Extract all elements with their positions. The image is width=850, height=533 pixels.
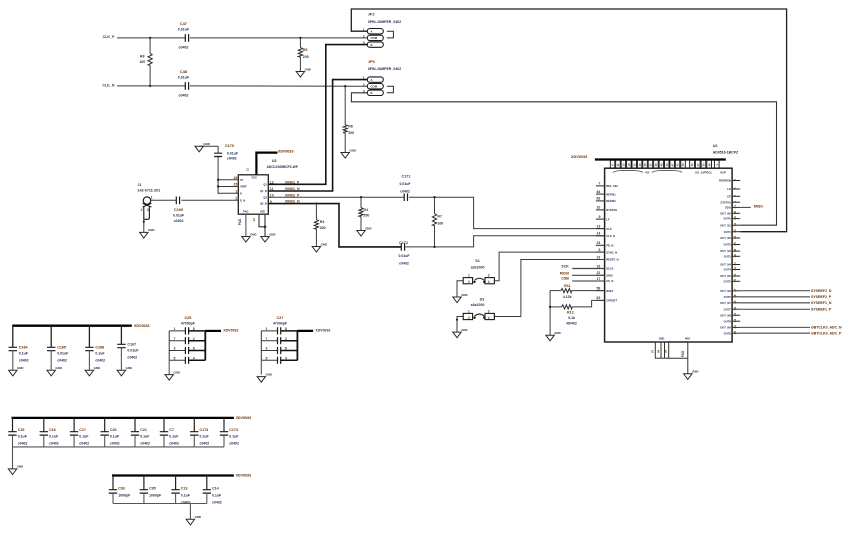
wire OUT_N6 SYSREF2_N <box>740 289 832 293</box>
ground (U3 PAD) <box>238 214 257 242</box>
svg-text:LF: LF <box>606 217 610 221</box>
svg-text:14: 14 <box>596 232 600 236</box>
connector JP5 3PIN-JUMPER_0402 <box>363 60 401 96</box>
svg-text:7: 7 <box>266 337 268 341</box>
svg-text:S3: S3 <box>480 298 485 302</box>
svg-text:5: 5 <box>733 195 737 197</box>
svg-text:R6: R6 <box>348 125 353 129</box>
svg-text:GND: GND <box>266 372 272 376</box>
resistor R3 <box>314 204 325 247</box>
capacitor C16 <box>40 418 59 447</box>
svg-text:16: 16 <box>596 264 600 268</box>
svg-text:D: D <box>240 191 242 195</box>
svg-text:AD9516-1BCPZ: AD9516-1BCPZ <box>713 150 739 154</box>
ground (C165) <box>47 366 62 376</box>
svg-text:27: 27 <box>696 163 700 166</box>
svg-text:OUT_N4: OUT_N4 <box>720 263 731 267</box>
node CLK_N <box>102 83 115 87</box>
svg-text:MOSI: MOSI <box>560 272 569 276</box>
svg-text:35: 35 <box>733 242 737 246</box>
svg-text:Q1: Q1 <box>263 182 267 186</box>
svg-text:41: 41 <box>733 262 737 266</box>
ground (R6) <box>341 148 356 158</box>
svg-text:0.1uF: 0.1uF <box>49 435 59 439</box>
svg-text:SDO: SDO <box>725 206 731 210</box>
svg-text:47: 47 <box>670 163 674 166</box>
svg-text:VCC: VCC <box>251 175 257 179</box>
svg-text:C169: C169 <box>174 208 183 212</box>
ground (J1) <box>140 228 155 238</box>
svg-text:GND: GND <box>305 67 311 71</box>
svg-text:c0402: c0402 <box>179 45 189 49</box>
svg-text:C93: C93 <box>118 487 125 491</box>
svg-text:OUT2: OUT2 <box>724 243 732 247</box>
svg-text:JP2: JP2 <box>368 13 375 17</box>
svg-text:XDV0033: XDV0033 <box>315 329 330 333</box>
svg-text:U3: U3 <box>272 159 277 163</box>
svg-text:B: B <box>371 91 373 95</box>
svg-text:a3s1000: a3s1000 <box>471 266 485 270</box>
svg-text:OUT_N1: OUT_N1 <box>720 223 731 227</box>
svg-text:8: 8 <box>193 327 195 331</box>
svg-text:46: 46 <box>707 163 711 166</box>
svg-text:25: 25 <box>638 163 642 166</box>
wire CLK_N net <box>117 85 367 88</box>
svg-text:PD_N: PD_N <box>606 244 613 248</box>
svg-text:CLK: CLK <box>606 227 612 231</box>
ground (bank2) <box>8 465 23 475</box>
capacitor C13 <box>171 476 190 505</box>
svg-text:SYNC_N: SYNC_N <box>606 250 617 254</box>
svg-text:17: 17 <box>596 277 600 281</box>
svg-text:47000pF: 47000pF <box>181 322 196 326</box>
svg-text:0.1uF: 0.1uF <box>181 493 191 497</box>
svg-text:4: 4 <box>285 357 287 361</box>
svg-text:9: 9 <box>598 215 600 219</box>
svg-text:25: 25 <box>733 331 737 335</box>
svg-text:24: 24 <box>596 241 600 245</box>
svg-text:CS_N: CS_N <box>606 279 613 283</box>
svg-text:21: 21 <box>733 205 737 209</box>
svg-text:200: 200 <box>303 55 309 59</box>
svg-text:c0402: c0402 <box>110 441 120 445</box>
svg-text:VREF: VREF <box>240 185 247 189</box>
svg-text:C16: C16 <box>49 428 56 432</box>
wire CLK_P net <box>117 37 367 39</box>
svg-text:200: 200 <box>364 214 370 218</box>
svg-text:GND: GND <box>55 366 61 370</box>
svg-text:C166: C166 <box>95 346 104 350</box>
power XDV0033 (U2 VS rail) <box>571 155 726 159</box>
svg-text:c0402: c0402 <box>229 441 239 445</box>
resistor R11 <box>550 284 605 299</box>
ground (C164) <box>9 366 24 376</box>
svg-text:21: 21 <box>632 163 636 166</box>
svg-text:C172: C172 <box>399 241 408 245</box>
resistor R12 <box>549 291 605 336</box>
capacitor C174 <box>220 418 239 447</box>
svg-text:OUT_N0: OUT_N0 <box>720 211 731 215</box>
node SCK <box>561 265 604 269</box>
svg-text:RESET_N: RESET_N <box>606 258 618 262</box>
ground (R4) <box>357 226 372 236</box>
capacitor C164 <box>9 326 29 371</box>
pin numbers U3 right <box>270 181 274 204</box>
svg-text:1: 1 <box>468 310 470 314</box>
svg-text:CPRSET: CPRSET <box>606 299 617 303</box>
ground (C27) <box>257 372 272 382</box>
capacitor C166 <box>85 326 105 371</box>
svg-text:2: 2 <box>285 337 287 341</box>
svg-text:VT: VT <box>240 178 244 182</box>
capacitor C93 <box>109 476 131 504</box>
svg-text:29: 29 <box>733 216 737 220</box>
svg-text:GND: GND <box>148 228 154 232</box>
svg-text:c0402: c0402 <box>200 441 210 445</box>
svg-text:16: 16 <box>233 176 237 180</box>
pin numbers U3 left <box>233 176 237 201</box>
svg-text:C174: C174 <box>229 428 238 432</box>
svg-text:C7: C7 <box>169 428 174 432</box>
capacitor C171 <box>399 175 411 202</box>
svg-text:34: 34 <box>733 235 737 239</box>
svg-text:U2: U2 <box>713 144 718 148</box>
resistor R6 <box>343 86 354 152</box>
svg-text:1: 1 <box>151 195 153 199</box>
svg-text:SCLK: SCLK <box>606 267 613 271</box>
svg-text:18: 18 <box>627 163 631 166</box>
svg-text:XIN02_P: XIN02_P <box>285 193 300 197</box>
resistor R8 <box>139 38 152 86</box>
svg-text:c0402: c0402 <box>95 359 105 363</box>
svg-text:R7: R7 <box>437 215 442 219</box>
svg-text:15: 15 <box>622 163 626 166</box>
svg-text:142-0711-201: 142-0711-201 <box>137 188 160 192</box>
svg-text:MISO: MISO <box>754 205 763 209</box>
svg-text:3: 3 <box>488 274 490 278</box>
svg-text:RSET: RSET <box>606 289 614 293</box>
svg-text:44: 44 <box>657 350 661 354</box>
svg-text:REFIN1: REFIN1 <box>606 192 616 196</box>
svg-text:4.12k: 4.12k <box>563 295 572 299</box>
svg-text:200: 200 <box>320 226 326 230</box>
svg-text:4: 4 <box>488 280 490 284</box>
pin group U2 bottom GND pins 37/44/59 <box>650 338 688 359</box>
node CSB <box>561 276 604 281</box>
ground (U2 PAD) <box>684 370 699 380</box>
svg-text:5: 5 <box>266 357 268 361</box>
svg-text:CSB: CSB <box>561 276 569 280</box>
svg-text:26: 26 <box>733 325 737 329</box>
capacitor C165 <box>47 326 69 371</box>
svg-text:2: 2 <box>193 337 195 341</box>
svg-text:PAD: PAD <box>685 338 690 341</box>
svg-text:38: 38 <box>733 249 737 253</box>
svg-text:C15: C15 <box>18 428 25 432</box>
svg-text:40: 40 <box>660 163 664 166</box>
svg-text:A: A <box>371 30 373 34</box>
svg-text:XIN01_P: XIN01_P <box>285 180 300 184</box>
power XDV0033 (U3 VCC) <box>246 150 294 175</box>
svg-text:45: 45 <box>733 279 737 283</box>
svg-text:OUT5: OUT5 <box>724 279 732 283</box>
svg-text:GND: GND <box>349 148 355 152</box>
svg-text:a3s1000: a3s1000 <box>471 303 485 307</box>
svg-text:43: 43 <box>665 163 669 166</box>
svg-text:23: 23 <box>733 319 737 323</box>
svg-text:OUT3: OUT3 <box>724 254 732 258</box>
svg-text:3: 3 <box>147 208 149 212</box>
svg-text:SYSREF1_P: SYSREF1_P <box>811 307 832 311</box>
ground (C167) <box>117 366 132 376</box>
svg-text:28: 28 <box>643 163 647 166</box>
svg-text:c0402: c0402 <box>127 356 137 360</box>
svg-text:XDV0033: XDV0033 <box>571 155 587 159</box>
svg-text:C170: C170 <box>225 144 234 148</box>
svg-text:C14: C14 <box>212 487 219 491</box>
svg-text:2: 2 <box>363 83 365 87</box>
connector JP2 3PIN-JUMPER_0402 <box>363 13 401 48</box>
svg-text:OUT7: OUT7 <box>724 307 732 311</box>
svg-text:OUT0: OUT0 <box>724 217 732 221</box>
svg-text:2: 2 <box>468 280 470 284</box>
svg-text:C167: C167 <box>127 343 136 347</box>
wire S1 to U2 SYNC_N <box>494 252 605 281</box>
svg-text:VEE: VEE <box>260 209 265 213</box>
svg-text:3: 3 <box>488 310 490 314</box>
svg-text:48: 48 <box>733 294 737 298</box>
ground (C170) <box>195 142 210 152</box>
svg-text:7: 7 <box>598 182 600 186</box>
svg-text:2: 2 <box>733 179 737 181</box>
power XDV0033 rail (bank3) <box>112 474 251 478</box>
power XDV0033 rail (bank2) <box>12 416 252 420</box>
svg-text:OUT_N6: OUT_N6 <box>720 289 731 293</box>
wire U3 VT/VREF/D tie <box>217 179 238 194</box>
svg-text:PAD: PAD <box>243 209 248 213</box>
svg-text:GND: GND <box>17 366 23 370</box>
svg-text:COM: COM <box>371 36 378 40</box>
svg-text:0.1uF: 0.1uF <box>79 435 89 439</box>
svg-text:0.1uF: 0.1uF <box>110 435 120 439</box>
svg-text:CLK_N: CLK_N <box>102 83 115 87</box>
svg-text:2: 2 <box>363 35 365 39</box>
svg-text:GND: GND <box>173 370 179 374</box>
svg-text:C171: C171 <box>401 175 410 179</box>
capacitor C17 <box>70 418 89 447</box>
switch S3 a3s1000 <box>463 298 494 320</box>
svg-text:OUT6: OUT6 <box>724 295 732 299</box>
pin group U2 left pins with numbers <box>596 182 619 303</box>
svg-text:45: 45 <box>733 300 737 304</box>
svg-text:GND: GND <box>269 232 275 236</box>
svg-text:33: 33 <box>733 229 737 233</box>
svg-text:ADCLK925BCPZ-WP: ADCLK925BCPZ-WP <box>267 165 299 169</box>
wire OUT9 GBTCLK0_ADC_P <box>740 331 842 335</box>
svg-text:C17: C17 <box>79 428 86 432</box>
svg-text:64: 64 <box>596 190 600 194</box>
svg-text:OUT_N2: OUT_N2 <box>720 236 731 240</box>
svg-text:OUT_N5: OUT_N5 <box>720 274 731 278</box>
svg-text:LD: LD <box>727 187 731 191</box>
svg-text:8: 8 <box>598 248 600 252</box>
capacitor C21 <box>131 418 150 447</box>
capacitor C173 <box>190 418 209 447</box>
svg-text:5.1k: 5.1k <box>568 316 575 320</box>
capacitor C170 <box>199 144 239 194</box>
svg-text:0.1uF: 0.1uF <box>19 352 29 356</box>
svg-text:1: 1 <box>235 189 237 193</box>
capacitor C7 <box>160 418 179 447</box>
svg-text:6: 6 <box>285 347 287 351</box>
capacitor C167 <box>117 326 139 371</box>
svg-text:GBTCLK0_ADC_N: GBTCLK0_ADC_N <box>811 326 842 330</box>
svg-text:C95: C95 <box>149 487 156 491</box>
capacitor C47 <box>178 22 190 50</box>
svg-text:XDV0033: XDV0033 <box>278 150 294 154</box>
svg-text:Q1_N: Q1_N <box>260 189 267 193</box>
svg-text:c0402: c0402 <box>19 359 29 363</box>
svg-text:7: 7 <box>173 337 175 341</box>
wire JP5 pin3 rail to U2 OUT_N1 <box>351 93 776 225</box>
svg-text:3: 3 <box>266 347 268 351</box>
svg-text:CP: CP <box>727 194 731 198</box>
svg-text:0.01uF: 0.01uF <box>227 151 239 155</box>
svg-text:GND: GND <box>365 226 371 230</box>
svg-text:R5: R5 <box>303 48 308 52</box>
svg-text:XDV0033: XDV0033 <box>223 329 238 333</box>
svg-text:C165: C165 <box>57 346 66 350</box>
svg-text:VCP: VCP <box>720 171 726 175</box>
ground (R3) <box>312 242 327 252</box>
wire XIN01_P net (U3 Q1 to JP2 B) <box>268 45 367 185</box>
svg-text:8: 8 <box>285 327 287 331</box>
svg-text:30: 30 <box>702 163 706 166</box>
capacitor C25 (array) <box>169 316 238 375</box>
svg-text:c0402: c0402 <box>79 441 89 445</box>
svg-text:13: 13 <box>596 224 600 228</box>
svg-text:STATUS: STATUS <box>720 200 731 204</box>
svg-text:GND: GND <box>250 232 256 236</box>
svg-text:VS_LVPECL: VS_LVPECL <box>695 171 712 175</box>
svg-text:R8: R8 <box>140 55 145 59</box>
svg-text:OUT_N9: OUT_N9 <box>720 326 731 330</box>
svg-text:C25: C25 <box>185 316 192 320</box>
svg-text:GND: GND <box>554 331 560 335</box>
svg-text:31: 31 <box>649 163 653 166</box>
svg-text:55: 55 <box>681 163 685 166</box>
svg-text:0.01uF: 0.01uF <box>127 349 139 353</box>
svg-text:XIN01_N: XIN01_N <box>285 187 300 191</box>
svg-text:GND: GND <box>659 338 665 341</box>
node MOSI <box>560 272 605 276</box>
svg-text:3: 3 <box>733 187 737 189</box>
svg-text:100: 100 <box>139 60 145 64</box>
svg-text:11: 11 <box>616 163 620 166</box>
svg-text:SDIO: SDIO <box>606 274 613 278</box>
svg-text:3PIN-JUMPER_0402: 3PIN-JUMPER_0402 <box>368 20 401 24</box>
resistor R5 <box>298 38 308 72</box>
wire OUT7 SYSREF1_P <box>740 307 832 311</box>
svg-text:0.1uF: 0.1uF <box>200 435 210 439</box>
svg-text:0.1uF: 0.1uF <box>140 435 150 439</box>
svg-text:R12: R12 <box>567 310 574 314</box>
svg-text:R11: R11 <box>564 284 570 288</box>
svg-text:15: 15 <box>233 183 237 187</box>
svg-text:1000pF: 1000pF <box>118 493 131 497</box>
svg-text:20: 20 <box>690 163 694 166</box>
svg-text:6: 6 <box>193 347 195 351</box>
op-amp U2 AD9516-1BCPZ <box>605 144 739 342</box>
svg-text:REFMON: REFMON <box>719 179 731 183</box>
capacitor C14 <box>203 476 222 505</box>
svg-text:c0402: c0402 <box>169 441 179 445</box>
svg-text:0.01uF: 0.01uF <box>399 182 411 186</box>
svg-text:GND: GND <box>203 142 209 146</box>
wire SDO to MISO <box>740 205 763 209</box>
switch S1 a3s1000 <box>463 259 494 284</box>
svg-text:0.1uF: 0.1uF <box>169 435 179 439</box>
svg-text:36: 36 <box>654 163 658 166</box>
svg-text:CLK_P: CLK_P <box>103 35 116 39</box>
svg-text:2: 2 <box>141 208 143 212</box>
svg-text:62: 62 <box>596 296 600 300</box>
svg-text:200: 200 <box>348 131 354 135</box>
svg-text:1: 1 <box>266 327 268 331</box>
ground (R11/R12) <box>546 331 561 341</box>
svg-text:BYPASS: BYPASS <box>606 208 617 212</box>
svg-text:1: 1 <box>733 200 737 202</box>
svg-text:XDV0033: XDV0033 <box>236 416 252 420</box>
svg-text:0.1uF: 0.1uF <box>212 493 222 497</box>
svg-text:0.01uF: 0.01uF <box>178 28 190 32</box>
svg-text:D_N: D_N <box>240 198 245 202</box>
svg-text:C173: C173 <box>200 428 209 432</box>
svg-text:c0402: c0402 <box>140 441 150 445</box>
svg-text:100: 100 <box>437 222 443 226</box>
svg-text:C47: C47 <box>180 22 187 26</box>
svg-text:Q2: Q2 <box>263 195 267 199</box>
svg-text:SYSREF2_N: SYSREF2_N <box>811 289 832 293</box>
capacitor C48 <box>178 70 190 98</box>
svg-text:R3: R3 <box>320 220 325 224</box>
svg-text:OUT9: OUT9 <box>724 331 732 335</box>
svg-text:C13: C13 <box>181 487 188 491</box>
pin group U2 VS / VS_LVPECL / VCP top pins <box>610 160 726 174</box>
svg-text:B: B <box>371 43 373 47</box>
svg-text:GND: GND <box>195 515 201 519</box>
node CLK_P <box>103 35 116 39</box>
svg-text:OUT_N7: OUT_N7 <box>720 301 731 305</box>
svg-text:39: 39 <box>733 254 737 258</box>
svg-text:S1: S1 <box>475 259 480 263</box>
svg-text:47: 47 <box>733 288 737 292</box>
wire OUT_N9 GBTCLK0_ADC_N <box>740 326 842 330</box>
svg-text:OUT_N3: OUT_N3 <box>720 249 731 253</box>
ground (C166) <box>85 366 100 376</box>
svg-text:SYSREF1_N: SYSREF1_N <box>811 301 832 305</box>
svg-text:22: 22 <box>596 271 600 275</box>
ground (R5) <box>296 67 311 77</box>
svg-text:XDV0033: XDV0033 <box>236 474 252 478</box>
svg-text:0.1uF: 0.1uF <box>95 352 105 356</box>
svg-text:PAD: PAD <box>681 350 685 357</box>
svg-text:C164: C164 <box>19 346 28 350</box>
svg-text:C48: C48 <box>180 70 187 74</box>
svg-text:c0402: c0402 <box>49 441 59 445</box>
svg-text:GBTCLK0_ADC_P: GBTCLK0_ADC_P <box>811 331 842 335</box>
svg-text:37: 37 <box>650 350 654 354</box>
